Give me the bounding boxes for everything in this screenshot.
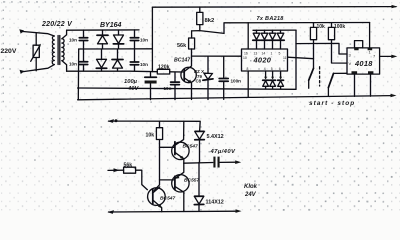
wire x296 vertical: [295, 30, 297, 89]
wire node up to second rail: [224, 23, 370, 34]
diode BY164-b (row1, down): [113, 30, 123, 49]
bridge top rail: [67, 29, 139, 31]
resistor 56k (input): [124, 162, 148, 189]
svg-text:C8: C8: [196, 79, 202, 84]
resistor 10k: [310, 23, 325, 44]
node wire to 8k2: [192, 31, 224, 34]
resistor 8k2: [197, 7, 215, 31]
svg-text:BC557: BC557: [184, 178, 200, 184]
wire pin16 feed: [247, 23, 249, 49]
top rail: [109, 121, 201, 131]
top supply rail: [152, 6, 396, 9]
wire pin11 to switch: [288, 57, 314, 59]
svg-text:start - stop: start - stop: [309, 100, 355, 107]
svg-text:10: 10: [243, 56, 247, 60]
zener BZX79C8: [194, 56, 213, 99]
svg-text:10n: 10n: [69, 38, 77, 43]
diode BA218-3: [269, 30, 276, 49]
node: 220V input terminal bottom: [20, 70, 25, 74]
svg-text:8k2: 8k2: [205, 18, 216, 24]
IC 4020: [242, 49, 288, 71]
bottom rail with arrows: [108, 210, 115, 214]
svg-text:11: 11: [283, 56, 287, 60]
capacitor 10n (bridge row1 left): [69, 30, 88, 49]
capacitor 10n (bridge row1 right): [130, 30, 148, 49]
diode BA218-4: [277, 30, 284, 49]
svg-text:Klok: Klok: [244, 184, 258, 190]
wires below 4018: [355, 74, 371, 96]
diode BY164-a (row1, up): [97, 30, 108, 49]
wire supply drop x152: [151, 7, 153, 71]
4020 pin8 wire: [247, 71, 249, 97]
capacitor 100n: [219, 56, 241, 99]
svg-text:100n: 100n: [231, 79, 242, 84]
node: supply terminal arrow: [108, 119, 115, 123]
svg-text:220/22 V: 220/22 V: [41, 21, 73, 28]
svg-text:100k: 100k: [334, 24, 345, 30]
svg-text:10n: 10n: [69, 62, 77, 67]
svg-text:16: 16: [244, 52, 248, 56]
wire primary top: [22, 31, 55, 36]
svg-text:47µ/40V: 47µ/40V: [210, 149, 237, 155]
output arrow 4018: [380, 55, 394, 57]
zener D6: [194, 162, 223, 211]
diode BA218-1: [253, 30, 260, 49]
output wire + arrow: [184, 162, 238, 163]
BOTTOM CIRCUIT: [108, 119, 258, 214]
switch S1b: [328, 73, 347, 96]
svg-text:10k: 10k: [146, 132, 155, 138]
wire base node vertical: [154, 140, 159, 191]
wire to BC547 top base: [160, 146, 175, 148]
wire line A y88: [78, 88, 296, 89]
vertical mid-rail left leg to ground: [77, 49, 79, 100]
IC 4018: [347, 41, 380, 75]
svg-text:BC547: BC547: [160, 196, 176, 202]
wire rail drop to 4018: [369, 23, 371, 48]
svg-text:V: V: [349, 61, 352, 66]
svg-text:1: 1: [271, 52, 273, 56]
capacitor 100u 40V: [124, 72, 157, 100]
svg-text:114X12: 114X12: [206, 199, 224, 205]
svg-text:24V: 24V: [244, 192, 257, 198]
svg-text:4020: 4020: [253, 56, 272, 65]
bridge mid rail: [79, 48, 153, 50]
switch gang dashed link: [319, 67, 321, 86]
wire clock y56 to 4020 pin10: [192, 55, 242, 57]
svg-text:7x BA218: 7x BA218: [257, 16, 285, 22]
transistor BC547 top: [172, 121, 198, 163]
svg-text:BC147: BC147: [174, 58, 191, 64]
node: 220V input terminal top: [19, 29, 24, 34]
resistor 56k: [177, 31, 195, 49]
svg-text:5.4X12: 5.4X12: [207, 134, 224, 140]
switch S1a: [309, 44, 314, 89]
transistor BC547 bottom: [148, 187, 176, 212]
transistor BC557: [160, 163, 200, 211]
4020 reset diodes with arrows: [263, 71, 284, 89]
svg-text:10n: 10n: [140, 62, 148, 67]
wire diode row top: [253, 29, 296, 31]
wire y43.5 to 10k and pin3: [296, 43, 347, 54]
capacitor 47u/40V: [210, 149, 237, 168]
svg-text:10n: 10n: [140, 38, 148, 43]
svg-text:220V: 220V: [1, 48, 17, 55]
TOP CIRCUIT: [1, 5, 398, 107]
diode BA218-2: [261, 30, 268, 49]
capacitor 10n (bridge row2 right): [130, 49, 148, 71]
svg-text:BY164: BY164: [100, 22, 122, 29]
svg-text:56k: 56k: [124, 162, 133, 168]
resistor 120k: [157, 65, 184, 74]
capacitor 10n (base): [164, 72, 180, 100]
svg-text:100µ: 100µ: [124, 79, 138, 85]
zener D5: [195, 131, 224, 162]
svg-text:10k: 10k: [317, 24, 326, 30]
resistor 10k (driver): [146, 121, 163, 139]
svg-text:120k: 120k: [158, 65, 170, 71]
svg-text:13: 13: [254, 52, 258, 56]
capacitor 10n (bridge row2 left): [69, 49, 88, 71]
diode BY164-d (row2, up): [112, 49, 123, 71]
input arrow: [114, 168, 120, 172]
svg-text:BC547: BC547: [183, 144, 199, 150]
transformer T1: [52, 30, 66, 71]
svg-text:14: 14: [262, 52, 266, 56]
varistor R (VDR): [31, 33, 41, 71]
bridge bottom rail + 120k feed: [67, 70, 158, 73]
svg-text:5: 5: [279, 52, 281, 56]
ground rail B: [78, 96, 393, 100]
resistor 100k: [328, 23, 347, 64]
transistor BC147: [174, 49, 196, 100]
svg-text:4018: 4018: [354, 59, 373, 68]
svg-text:56k: 56k: [177, 43, 187, 49]
diode BY164-c (row2, down): [96, 49, 106, 71]
wire primary bottom: [22, 65, 55, 72]
